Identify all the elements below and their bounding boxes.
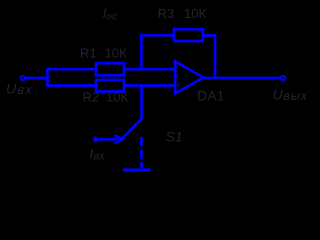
svg-text:R3: R3 [158, 6, 175, 21]
svg-text:S1: S1 [166, 129, 183, 145]
output terminal Uvyx [281, 76, 285, 80]
svg-text:Uвх: Uвх [6, 81, 33, 98]
op-amp DA1 triangle [175, 62, 203, 94]
wire: rail2 right segment to op-amp [124, 84, 176, 87]
wire: feedback top left segment [140, 34, 174, 37]
svg-text:10К: 10К [106, 90, 128, 105]
wire: op-amp output [204, 77, 281, 80]
svg-text:DA1: DA1 [197, 88, 224, 104]
resistor R2 [96, 80, 124, 92]
wire: feedback right vertical to output [214, 34, 217, 78]
wire: feedback left vertical [140, 34, 143, 70]
wire: input terminal to splitter [25, 77, 48, 80]
wire: feedback top right segment [203, 34, 216, 37]
wire: rail1 left segment [47, 68, 97, 71]
dashed mechanical link to ground [140, 137, 143, 168]
resistor R1 [96, 63, 124, 75]
wire: rail2 left segment [47, 84, 97, 87]
switch actuator dot [93, 137, 99, 143]
switch actuator arrowhead [114, 135, 123, 144]
wire: rail1 right segment to op-amp [124, 68, 176, 71]
wire: input splitter vertical [46, 68, 49, 87]
switch actuator shaft [96, 138, 119, 141]
svg-text:+: + [176, 81, 181, 90]
input terminal Uvx [21, 76, 25, 80]
resistor R3 (feedback) [174, 29, 203, 41]
switch S1 blade [123, 119, 142, 139]
wire: non-inverting rail down to switch contact [140, 87, 143, 120]
svg-text:10К: 10К [105, 46, 127, 61]
svg-text:Uвых: Uвых [273, 87, 308, 104]
svg-text:R1: R1 [80, 46, 97, 61]
svg-text:10К: 10К [184, 6, 206, 21]
svg-text:R2: R2 [83, 90, 100, 105]
ground bar [123, 168, 151, 171]
